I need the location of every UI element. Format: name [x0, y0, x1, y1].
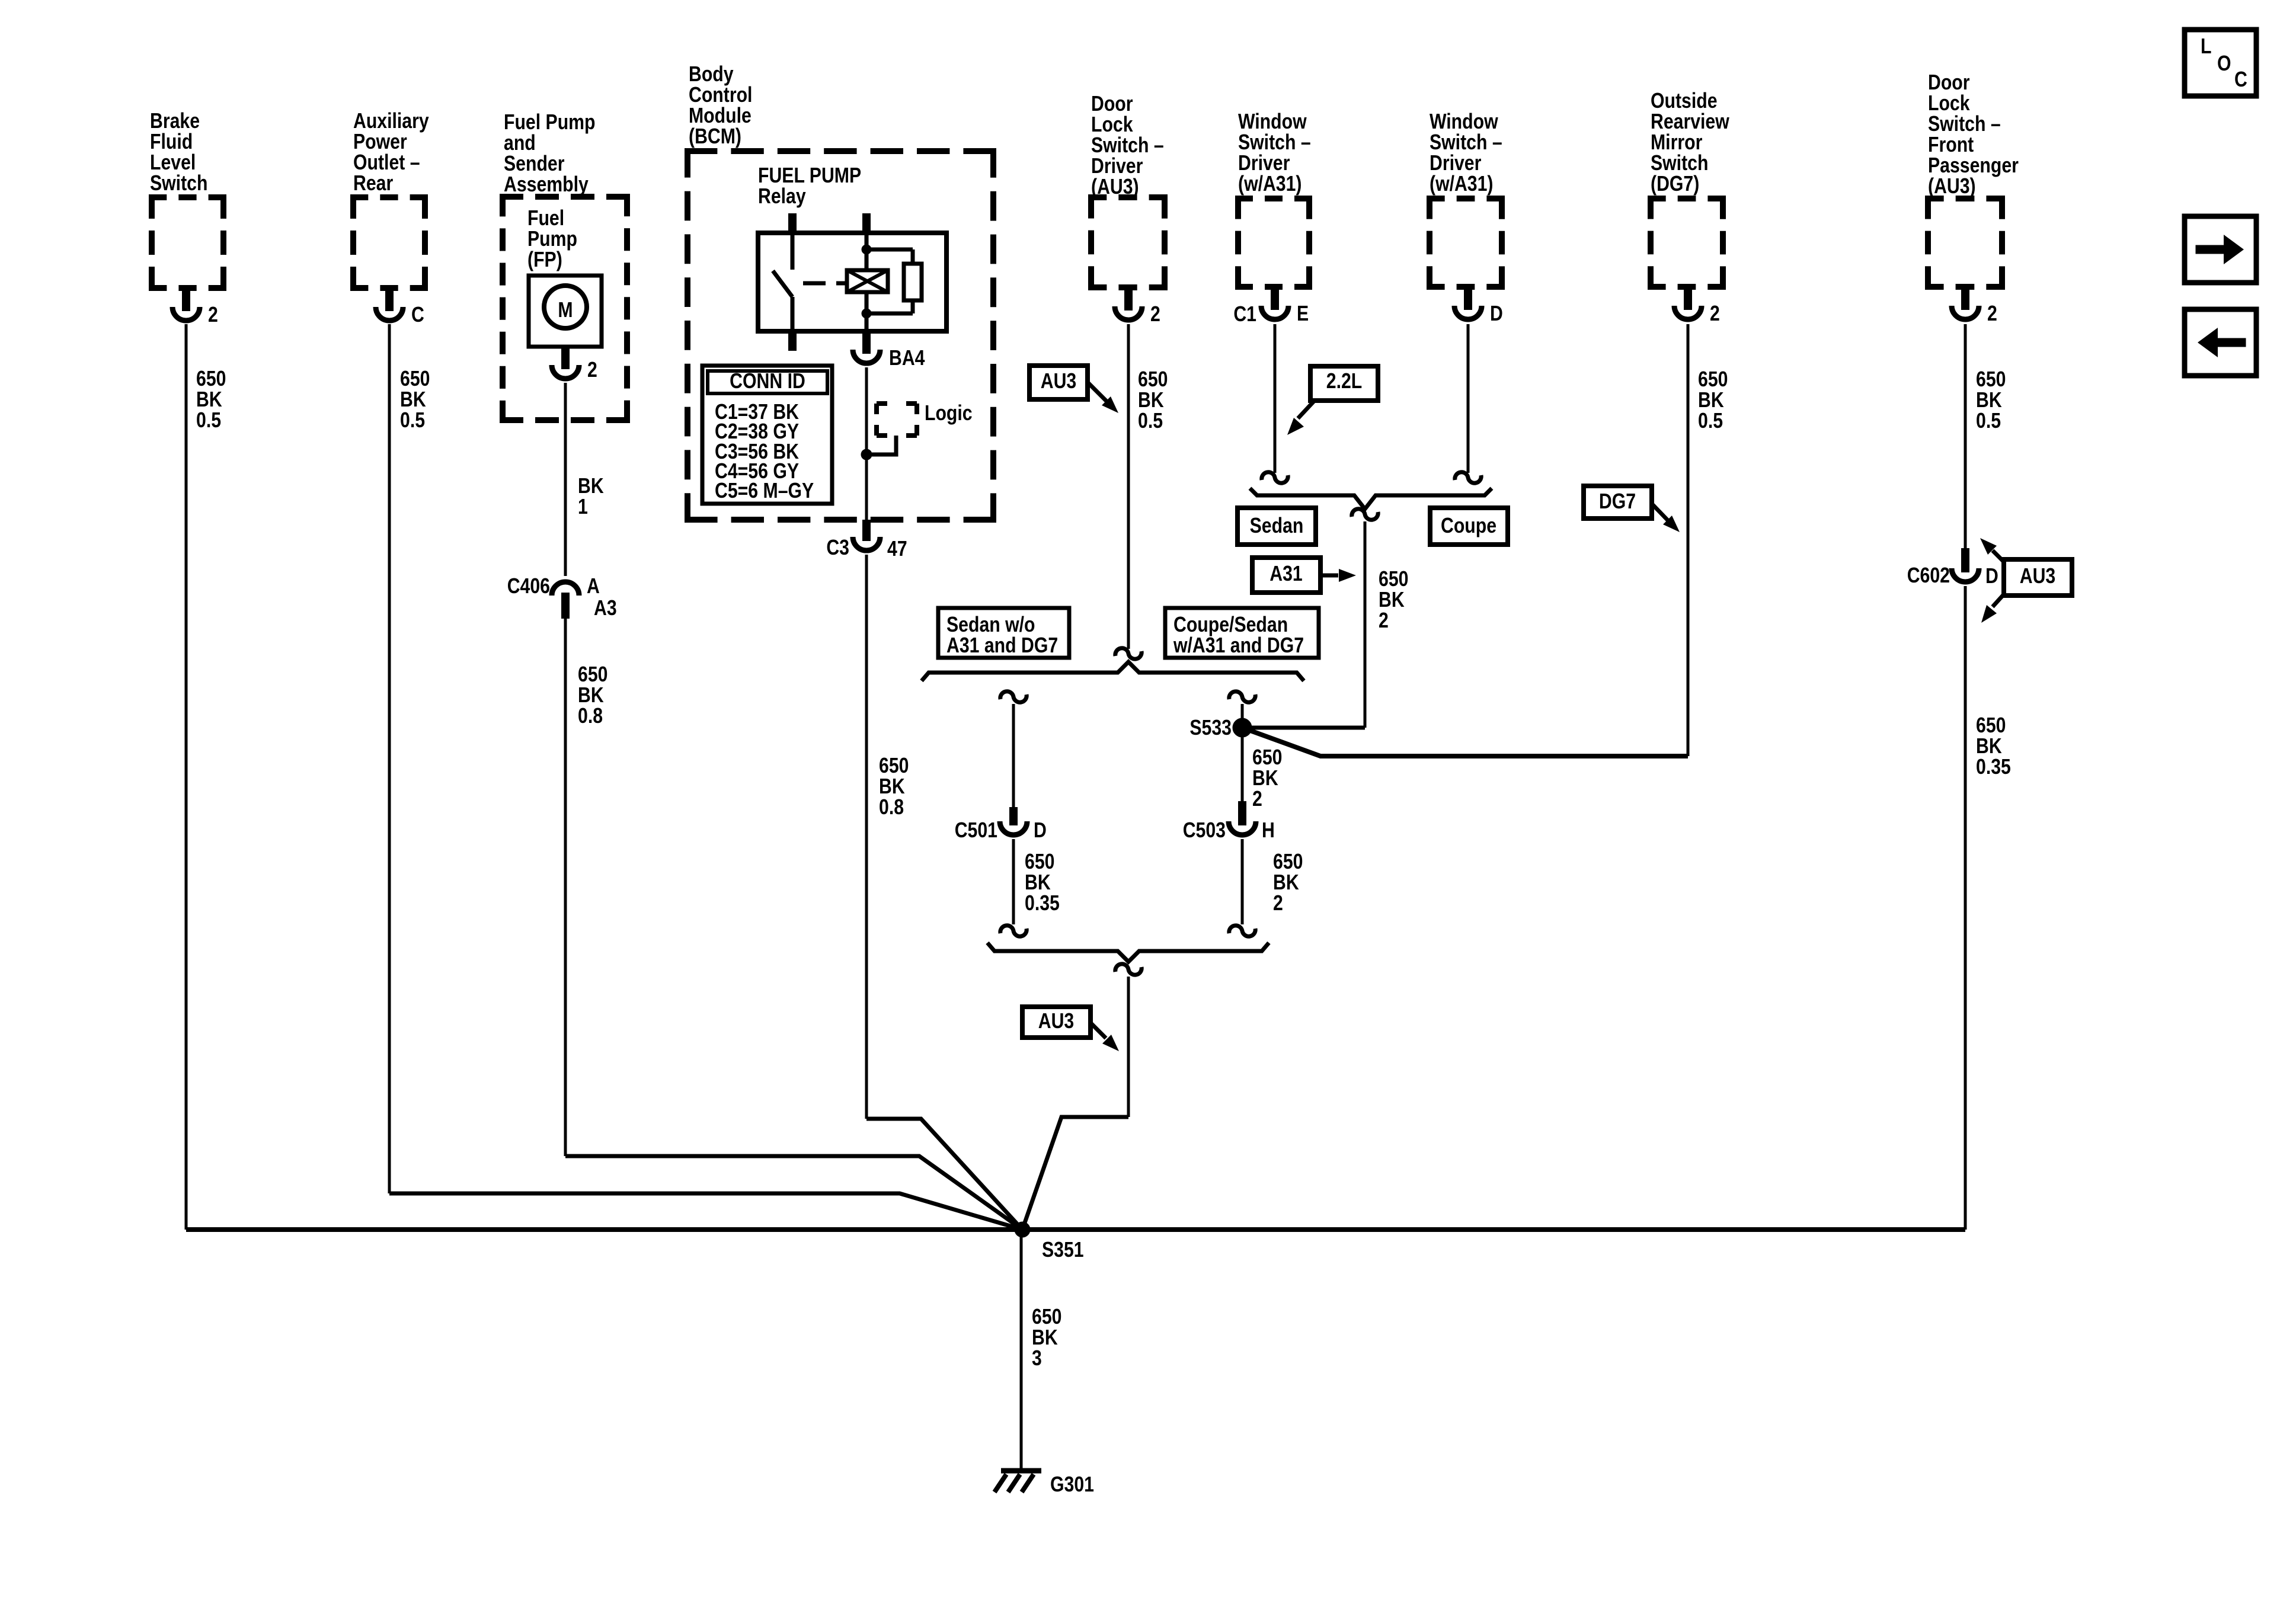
svg-text:A3: A3 — [594, 597, 617, 620]
svg-text:C503: C503 — [1183, 819, 1226, 843]
svg-text:AU3: AU3 — [1041, 370, 1076, 393]
svg-text:DG7: DG7 — [1599, 490, 1636, 514]
svg-text:w/A31 and DG7: w/A31 and DG7 — [1173, 634, 1304, 658]
svg-text:0.5: 0.5 — [196, 409, 221, 433]
svg-text:D: D — [1490, 302, 1503, 326]
svg-text:2: 2 — [587, 359, 597, 382]
svg-text:C: C — [2234, 68, 2247, 92]
svg-text:2.2L: 2.2L — [1326, 370, 1363, 393]
svg-text:L: L — [2201, 35, 2211, 59]
svg-text:(w/A31): (w/A31) — [1430, 172, 1494, 196]
svg-text:(FP): (FP) — [527, 248, 562, 272]
svg-text:0.8: 0.8 — [578, 705, 603, 728]
svg-text:Rear: Rear — [353, 172, 393, 196]
svg-text:G301: G301 — [1050, 1473, 1094, 1497]
svg-text:A31 and DG7: A31 and DG7 — [946, 634, 1058, 658]
svg-text:Coupe: Coupe — [1441, 514, 1496, 538]
svg-text:0.35: 0.35 — [1976, 756, 2011, 779]
svg-text:A31: A31 — [1269, 562, 1302, 586]
svg-text:C: C — [411, 303, 424, 327]
svg-text:C1: C1 — [1233, 303, 1256, 327]
svg-text:47: 47 — [887, 537, 907, 561]
svg-text:0.35: 0.35 — [1025, 892, 1060, 916]
svg-text:(DG7): (DG7) — [1651, 172, 1699, 196]
svg-text:(BCM): (BCM) — [689, 125, 741, 149]
svg-text:0.5: 0.5 — [1698, 409, 1723, 433]
svg-text:AU3: AU3 — [1038, 1010, 1074, 1033]
svg-text:2: 2 — [1150, 303, 1160, 327]
svg-text:3: 3 — [1032, 1347, 1042, 1371]
svg-text:C5=6 M–GY: C5=6 M–GY — [715, 479, 814, 503]
svg-text:0.8: 0.8 — [879, 796, 904, 820]
svg-text:Relay: Relay — [758, 185, 806, 209]
svg-text:0.5: 0.5 — [1976, 409, 2001, 433]
svg-text:2: 2 — [1379, 609, 1389, 633]
svg-text:C3: C3 — [826, 536, 849, 560]
svg-text:C406: C406 — [507, 575, 550, 598]
svg-text:2: 2 — [1273, 892, 1283, 916]
svg-text:H: H — [1262, 819, 1275, 843]
svg-text:D: D — [1985, 565, 1998, 588]
svg-text:(AU3): (AU3) — [1091, 175, 1139, 199]
svg-text:2: 2 — [1252, 788, 1262, 811]
svg-text:AU3: AU3 — [2020, 565, 2055, 588]
svg-text:0.5: 0.5 — [400, 409, 425, 433]
svg-text:S533: S533 — [1189, 716, 1232, 740]
svg-text:M: M — [558, 299, 573, 322]
svg-text:C501: C501 — [955, 819, 997, 843]
svg-text:A: A — [587, 575, 600, 598]
svg-text:2: 2 — [208, 303, 218, 327]
svg-text:Switch: Switch — [150, 172, 207, 196]
svg-text:2: 2 — [1710, 302, 1720, 326]
svg-text:Logic: Logic — [925, 402, 973, 425]
svg-text:1: 1 — [578, 495, 588, 519]
svg-text:D: D — [1034, 819, 1047, 843]
svg-text:BA4: BA4 — [889, 347, 925, 370]
svg-text:(AU3): (AU3) — [1928, 175, 1976, 199]
svg-text:S351: S351 — [1042, 1238, 1084, 1262]
svg-text:C602: C602 — [1907, 564, 1950, 588]
svg-text:0.5: 0.5 — [1138, 409, 1163, 433]
svg-text:Assembly: Assembly — [504, 173, 589, 197]
svg-text:O: O — [2217, 52, 2231, 76]
svg-text:(w/A31): (w/A31) — [1238, 172, 1302, 196]
svg-text:CONN ID: CONN ID — [730, 370, 805, 393]
svg-text:E: E — [1297, 302, 1309, 326]
svg-text:2: 2 — [1987, 302, 1997, 326]
svg-text:Sedan: Sedan — [1250, 514, 1304, 538]
